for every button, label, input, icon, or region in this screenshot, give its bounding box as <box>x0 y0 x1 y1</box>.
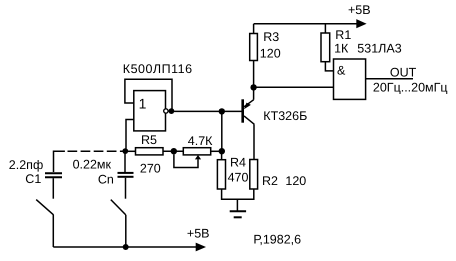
resistor R5 <box>136 148 164 155</box>
resistor R4 <box>221 151 223 160</box>
svg-text:120: 120 <box>260 47 281 61</box>
wire R4/R2 bottoms to ground <box>222 189 254 199</box>
+5V bottom arrow <box>196 243 206 252</box>
svg-text:+5В: +5В <box>348 3 371 17</box>
wire IC output to transistor base <box>174 110 242 112</box>
node IC output junction dot <box>169 108 175 114</box>
svg-text:R2: R2 <box>262 174 278 188</box>
svg-text:R3: R3 <box>263 30 279 44</box>
ground <box>230 210 246 212</box>
node R5/pot junction dot <box>171 148 177 154</box>
potentiometer wiper arrow <box>195 155 201 159</box>
wire node to gate input B <box>254 86 334 88</box>
wire dashed C1 to Cn node <box>65 150 123 152</box>
resistor R1 <box>324 24 326 33</box>
svg-text:Cn: Cn <box>98 172 114 186</box>
svg-text:2.2пф: 2.2пф <box>9 158 43 172</box>
svg-text:C1: C1 <box>25 172 41 186</box>
svg-text:OUT: OUT <box>390 66 417 80</box>
wire S2 to bottom rail <box>125 215 127 247</box>
wire Cn bottom to switch S2 <box>125 178 127 199</box>
potentiometer R6 4.7K body <box>183 148 210 155</box>
node base wire junction dot <box>219 108 225 114</box>
capacitor C1 <box>54 151 65 172</box>
+5V top arrow <box>356 19 366 28</box>
capacitor Cn plates <box>118 172 134 174</box>
node bottom rail junction dot <box>123 244 129 250</box>
+5V top rail wire <box>254 23 357 25</box>
IC output inversion bubble <box>164 109 168 113</box>
node C/R5 junction dot <box>122 148 128 154</box>
wire bottom +5V rail <box>53 246 196 248</box>
transistor emitter arrowhead <box>244 103 251 110</box>
svg-text:270: 270 <box>140 161 161 175</box>
wire node to R5 <box>125 150 135 152</box>
svg-text:&: & <box>337 63 346 77</box>
wire R3 bottom to emitter <box>253 61 255 100</box>
IC U1 K500LP116 box <box>134 91 166 131</box>
svg-text:R1: R1 <box>335 28 351 42</box>
svg-text:531ЛА3: 531ЛА3 <box>357 42 401 56</box>
wire base node down to pot node <box>221 111 223 151</box>
svg-text:R4: R4 <box>230 155 246 169</box>
wire input 2 from C node <box>126 120 134 149</box>
svg-text:+5В: +5В <box>187 227 210 241</box>
svg-text:1К: 1К <box>334 42 349 56</box>
op-amp U2 531LA3 gate box <box>334 59 366 99</box>
wire wiper to R5/pot node <box>174 154 198 167</box>
svg-text:1: 1 <box>139 96 147 112</box>
svg-text:КТ326Б: КТ326Б <box>263 109 307 123</box>
svg-text:120: 120 <box>285 174 306 188</box>
svg-text:К500ЛП116: К500ЛП116 <box>123 62 193 76</box>
wire C1 bottom to switch S1 <box>52 178 54 199</box>
svg-text:Р,1982,6: Р,1982,6 <box>253 233 301 247</box>
resistor R2 <box>250 160 258 190</box>
wire ground stub <box>236 199 238 211</box>
transistor collector diagonal <box>244 116 254 124</box>
wire gate output <box>366 78 413 80</box>
wire S1 to bottom rail <box>52 215 54 247</box>
svg-text:20Гц...20мГц: 20Гц...20мГц <box>373 81 448 95</box>
node pot/R4 junction dot <box>219 148 225 154</box>
node R3/emitter junction dot <box>250 84 256 90</box>
wire R5 to pot <box>163 150 183 152</box>
transistor emitter diagonal <box>244 100 254 107</box>
wire feedback loop output to input 1 <box>125 79 172 111</box>
wire collector to R2 <box>253 124 255 159</box>
svg-text:0.22мк: 0.22мк <box>73 158 112 172</box>
wire pot right terminal <box>211 150 222 152</box>
svg-text:R5: R5 <box>141 133 157 147</box>
transistor Q1 KT326B base bar <box>241 99 244 122</box>
wire R1 to gate input A <box>325 62 333 71</box>
svg-text:4.7К: 4.7К <box>188 134 213 148</box>
capacitor C1 plates <box>45 172 62 174</box>
svg-text:470: 470 <box>228 170 249 184</box>
resistor R3 <box>253 24 255 34</box>
switch S1 blade <box>36 200 53 215</box>
switch S2 blade <box>111 200 126 215</box>
capacitor Cn wire <box>124 151 126 172</box>
